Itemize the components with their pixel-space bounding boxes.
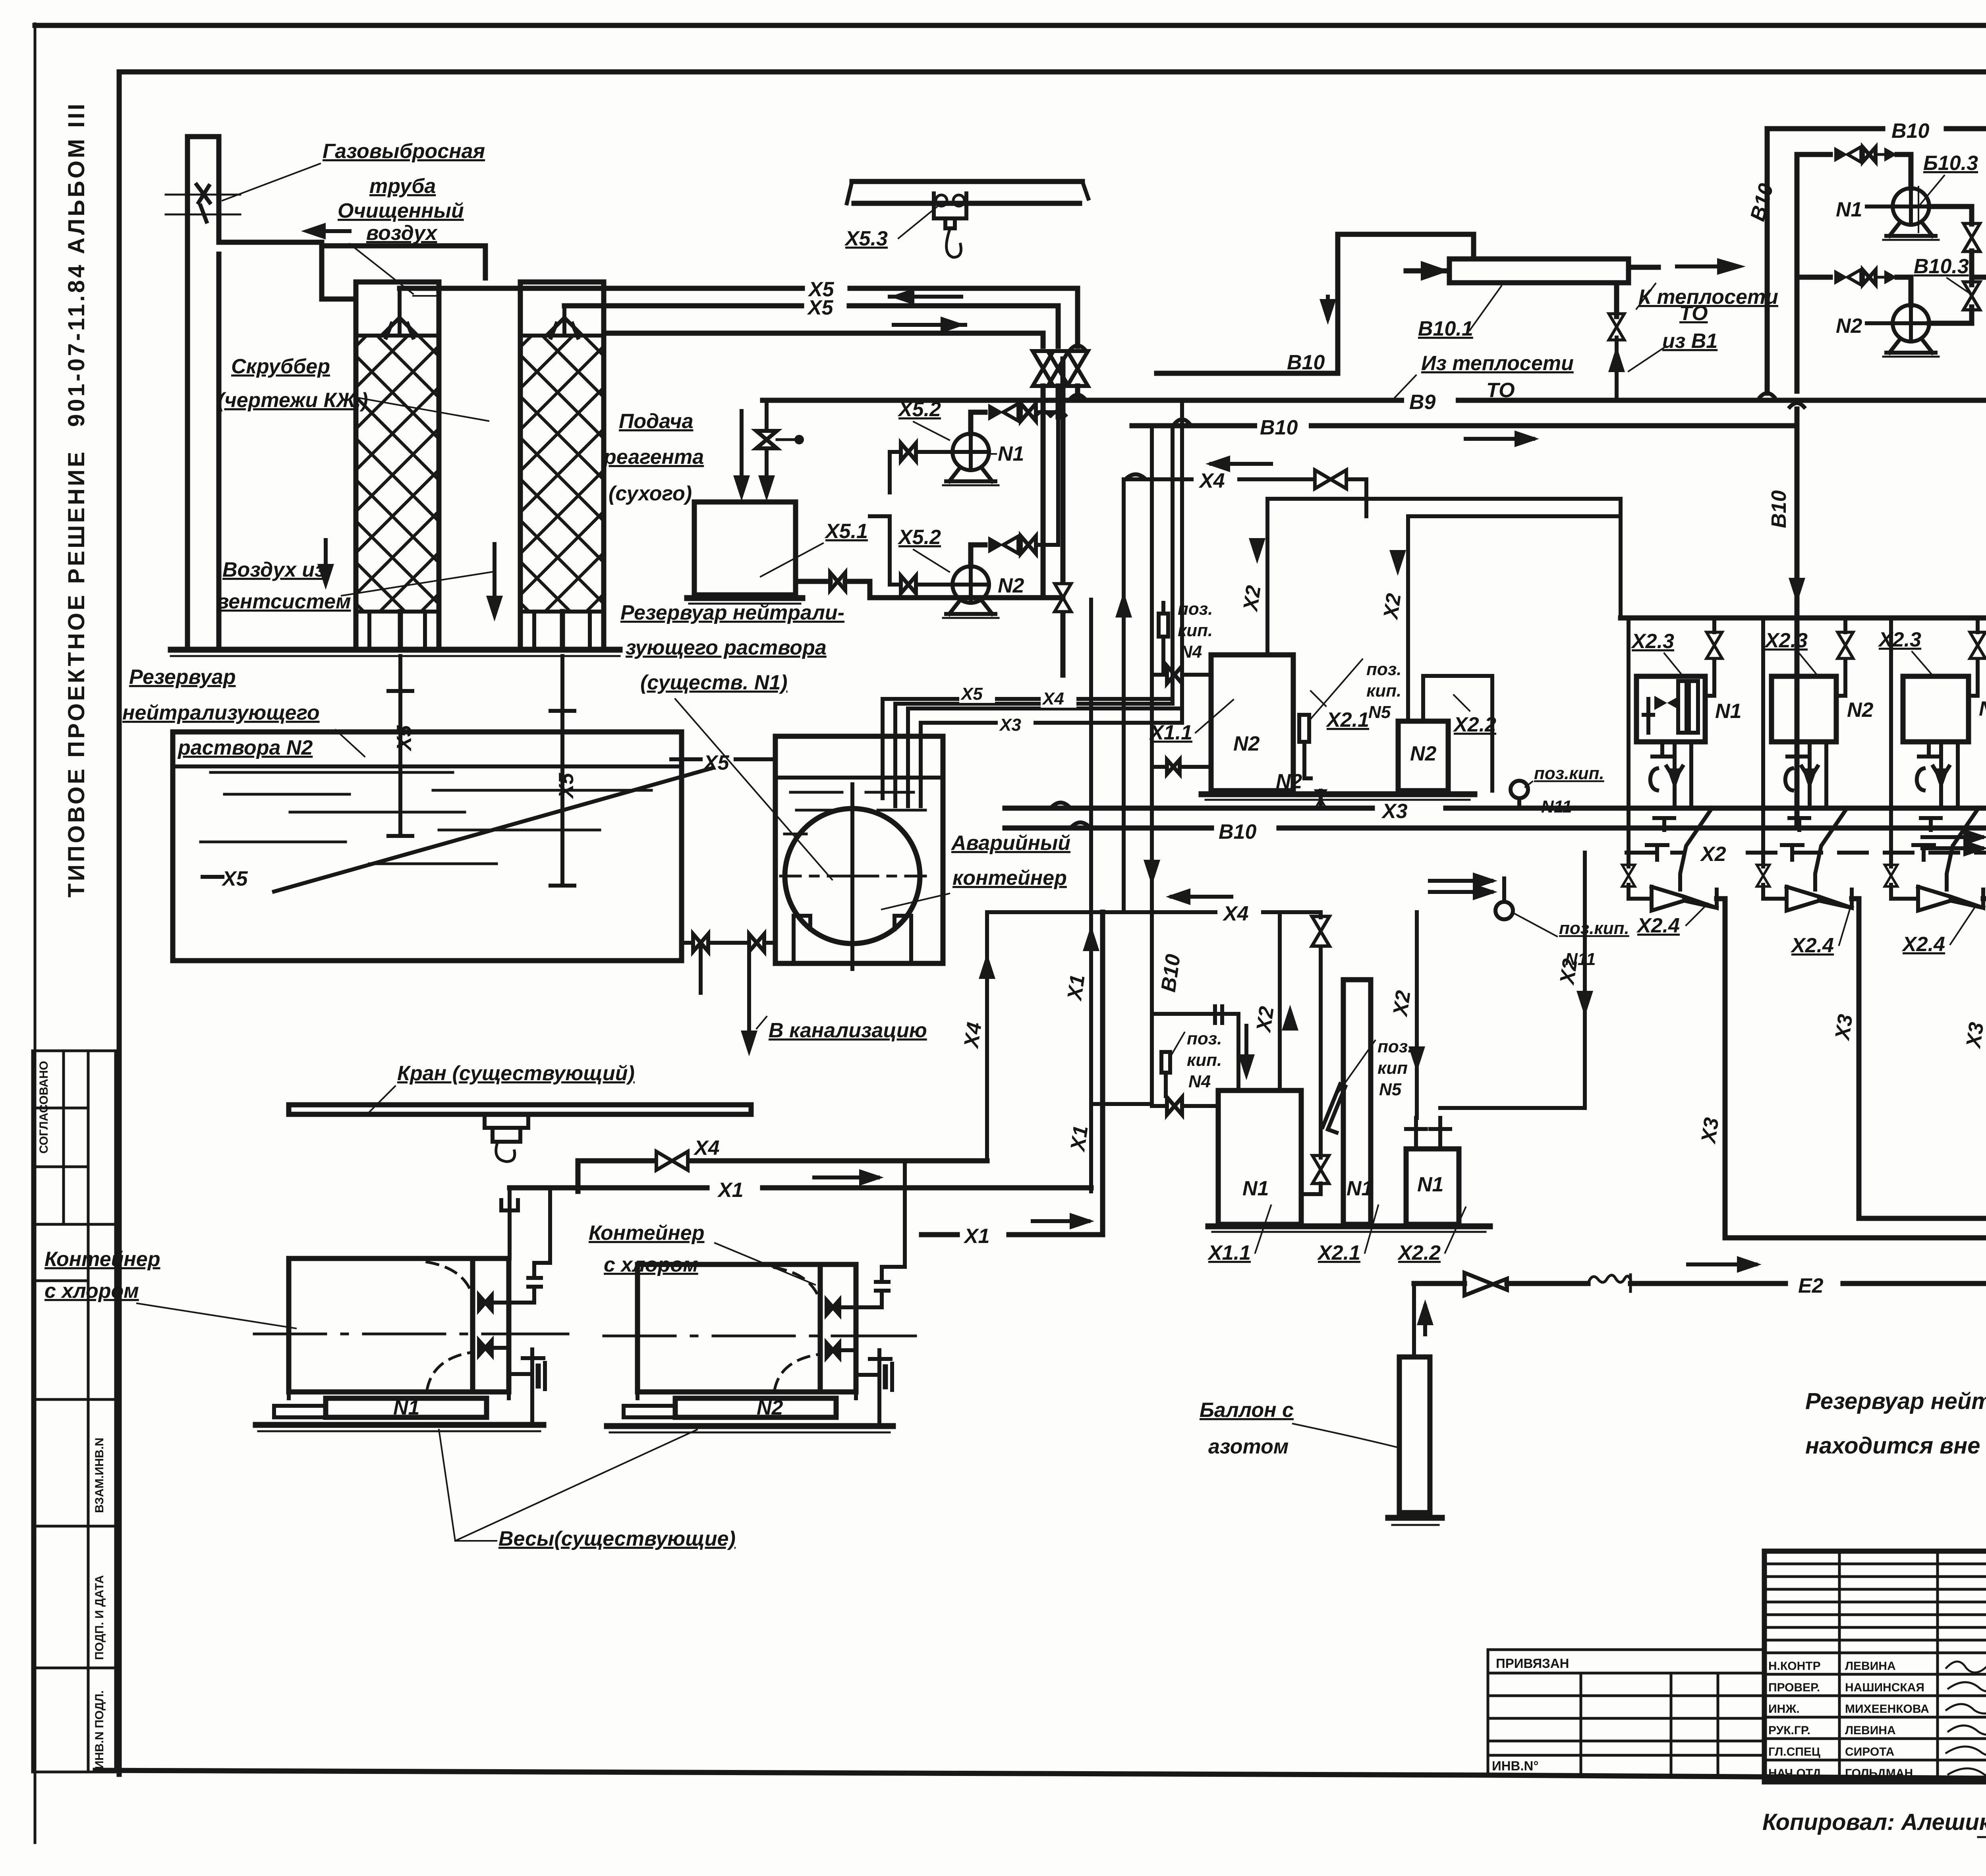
svg-text:Х3: Х3 — [1697, 1116, 1723, 1146]
label N2 in tank — [1233, 732, 1260, 755]
pump N1 discharge with check valve — [971, 403, 1058, 434]
label X2.2 upper — [1453, 695, 1496, 736]
E2 reducer — [1464, 1273, 1507, 1295]
label B10.1 — [1418, 286, 1501, 340]
svg-text:Х5.2: Х5.2 — [897, 526, 941, 549]
svg-text:N1: N1 — [1417, 1173, 1443, 1196]
reservoir drain valve pair — [686, 934, 737, 952]
container N1 discharge riser — [509, 1188, 550, 1303]
pipe X3 main line — [1005, 797, 1986, 819]
label X5 rotated on drain 2 — [555, 772, 578, 799]
container N2 discharge riser — [856, 1161, 905, 1307]
unit supply drops — [1629, 618, 1986, 808]
chlorinator unit 1 box — [1636, 676, 1705, 742]
svg-text:азотом: азотом — [1208, 1435, 1289, 1458]
svg-text:поз.кип.: поз.кип. — [1534, 764, 1604, 783]
label B10 on second line — [1219, 820, 1256, 843]
E2 coil — [1588, 1275, 1631, 1291]
crane X5.3 runway beam upper — [847, 181, 1088, 203]
label N2 container — [757, 1396, 783, 1419]
svg-text:Х2.3: Х2.3 — [1631, 630, 1674, 653]
svg-text:ИНЖ.: ИНЖ. — [1768, 1702, 1800, 1716]
svg-text:нейтрализующего: нейтрализующего — [122, 701, 320, 724]
label X2 rotated far right — [1555, 957, 1582, 987]
svg-text:ИНВ.N°: ИНВ.N° — [1492, 1758, 1539, 1773]
svg-text:воздух: воздух — [366, 222, 438, 245]
container N1 valves — [479, 1295, 509, 1355]
label X1.1 lower — [1207, 1205, 1271, 1264]
label X2.4 unit 3 — [1901, 905, 1976, 956]
svg-text:СИРОТА: СИРОТА — [1845, 1745, 1894, 1758]
svg-text:Х2.3: Х2.3 — [1878, 628, 1921, 651]
svg-text:из В1: из В1 — [1662, 330, 1717, 353]
bath water dashes — [784, 792, 925, 834]
svg-text:Х2: Х2 — [1239, 584, 1265, 614]
svg-text:Весы(существующие): Весы(существующие) — [498, 1527, 736, 1550]
chlorine container N1 — [254, 1258, 568, 1392]
svg-text:с хлором: с хлором — [44, 1280, 139, 1303]
label X3 rotated unit 2 — [1831, 1013, 1857, 1042]
lower loop poz kip N4 — [1152, 1006, 1238, 1101]
label X2.1 lower — [1317, 1205, 1378, 1264]
pipe X5 vertical from scrubber 1 into reservoir — [388, 656, 412, 836]
leader to bath — [675, 699, 832, 880]
label k teploseti TO — [1636, 284, 1778, 325]
signatures — [1946, 1662, 1986, 1778]
flow arrows pair on X3 — [1430, 872, 1497, 900]
purified air upper duct — [324, 246, 485, 278]
label X5 rotated on drain 1 — [393, 725, 416, 752]
label N2 unit — [1847, 699, 1874, 722]
arrow on X1 link — [1033, 1213, 1094, 1229]
unit 2 top valve — [1836, 618, 1853, 696]
svg-text:К теплосети: К теплосети — [1638, 286, 1778, 309]
emergency container drum — [780, 784, 925, 969]
label X5.2 upper — [897, 398, 949, 440]
bath dip pipes from above — [883, 699, 921, 806]
svg-text:Х1: Х1 — [717, 1179, 744, 1202]
label X1.1 — [1149, 700, 1233, 744]
label kontejner s hlorom 2 — [589, 1222, 815, 1285]
valve on X4 lower — [1312, 912, 1329, 1158]
svg-text:ЛЕВИНА: ЛЕВИНА — [1845, 1724, 1896, 1737]
svg-text:Контейнер: Контейнер — [589, 1222, 704, 1245]
svg-text:труба: труба — [369, 175, 436, 198]
svg-text:Контейнер: Контейнер — [44, 1248, 160, 1271]
drain downpipes to sewer — [701, 943, 757, 1056]
svg-text:(чертежи КЖ.): (чертежи КЖ.) — [218, 389, 368, 412]
svg-text:Х1: Х1 — [1066, 1124, 1093, 1154]
B10 elbow riser — [1760, 129, 1774, 397]
collector line 4 — [1859, 1208, 1986, 1229]
label N1 unit — [1715, 700, 1741, 723]
svg-text:поз.: поз. — [1377, 1037, 1412, 1056]
svg-text:N1: N1 — [1715, 700, 1741, 723]
label v kanalizaciyu center — [757, 1017, 927, 1042]
svg-text:ГЛ.СПЕЦ: ГЛ.СПЕЦ — [1768, 1745, 1820, 1758]
tank outlet line to pumps — [1972, 248, 1986, 303]
label B10.3 upper — [1918, 152, 1978, 232]
label X5.3 — [844, 207, 937, 250]
pump N2 suction valve — [870, 516, 952, 593]
label B10.3 lower — [1914, 255, 1969, 293]
svg-text:ПРИВЯЗАН: ПРИВЯЗАН — [1496, 1656, 1569, 1671]
label podacha reagenta suhogo — [603, 410, 704, 505]
label iz teploseti TO — [1392, 352, 1574, 402]
label X1 rotated — [1063, 973, 1090, 1003]
svg-text:В канализацию: В канализацию — [769, 1019, 927, 1042]
manifold drop joints — [1036, 395, 1085, 415]
label X4 rotated — [960, 1021, 986, 1050]
label vozduh iz ventsistem — [216, 558, 503, 621]
label X2.3 unit 1 — [1631, 630, 1682, 675]
svg-text:Х2.4: Х2.4 — [1790, 934, 1834, 957]
svg-text:Х1.1: Х1.1 — [1207, 1241, 1251, 1264]
pump B10 N2 — [1883, 305, 1939, 357]
label kran sushchestvuyushchij — [369, 1062, 635, 1112]
scrubber column 2 legs — [534, 612, 590, 650]
svg-text:поз.: поз. — [1187, 1029, 1222, 1048]
svg-text:ЛЕВИНА: ЛЕВИНА — [1845, 1660, 1896, 1673]
svg-text:Х4: Х4 — [693, 1137, 720, 1160]
lower tanks ground line — [1208, 1226, 1490, 1232]
X5 manifold valve 3 — [1033, 351, 1053, 598]
label B10 rotated on riser — [1746, 181, 1778, 224]
svg-text:Х5: Х5 — [555, 772, 578, 799]
svg-text:НАЧ.ОТД: НАЧ.ОТД — [1768, 1767, 1821, 1780]
label N2 at platform — [1276, 770, 1302, 793]
pipe E2 — [1414, 1281, 1986, 1286]
label X3 rotated unit 3 — [1962, 1021, 1986, 1050]
svg-text:кип.: кип. — [1366, 681, 1401, 701]
X2 down pipe from dashed line — [1440, 853, 1593, 1108]
pump N1 suction valve — [890, 443, 952, 492]
bath drain valve pair — [737, 934, 775, 952]
svg-text:ИНВ.N ПОДЛ.: ИНВ.N ПОДЛ. — [93, 1691, 106, 1770]
lower tank feed valve — [1152, 1097, 1218, 1115]
svg-text:Х2.1: Х2.1 — [1317, 1241, 1360, 1264]
container N1 ground — [256, 1425, 543, 1431]
svg-text:Подача: Подача — [619, 410, 693, 433]
label kontejner s hlorom 1 — [44, 1248, 296, 1328]
label X5.2 lower — [897, 526, 949, 572]
unit 1 fittings at lines — [1647, 818, 1674, 860]
label ochishchennyj vozduh — [301, 199, 464, 296]
label X2.1 upper — [1311, 691, 1369, 731]
svg-text:ГОЛЬДМАН: ГОЛЬДМАН — [1845, 1767, 1913, 1780]
svg-text:Х5: Х5 — [393, 725, 416, 752]
svg-text:Х2: Х2 — [1252, 1005, 1279, 1035]
svg-text:Х5: Х5 — [960, 684, 983, 704]
pipe B10 second line — [1005, 818, 1986, 839]
svg-text:вентсистем: вентсистем — [216, 590, 351, 613]
svg-text:N2: N2 — [998, 574, 1024, 597]
pipe X4 upper horizontal — [1124, 475, 1313, 480]
svg-text:Воздух из: Воздух из — [222, 558, 325, 581]
container N1 weight lever — [509, 1349, 545, 1425]
valve under ground to X3 — [1316, 790, 1326, 808]
HX inlet arrow — [1406, 261, 1449, 281]
svg-text:N2: N2 — [1410, 742, 1437, 765]
small tank X2.2 lower — [1406, 1149, 1459, 1224]
unit 3 lower piping — [1917, 742, 1958, 808]
svg-text:Х5: Х5 — [807, 296, 834, 319]
chlorinator unit 2 box — [1772, 676, 1836, 742]
svg-text:Кран (существующий): Кран (существующий) — [397, 1062, 635, 1085]
svg-text:N4: N4 — [1188, 1072, 1211, 1091]
unit 2 inlet valve — [1757, 808, 1787, 899]
labels E2 — [1798, 1274, 1986, 1297]
sheet outer border left — [34, 24, 37, 1843]
svg-text:Х2.4: Х2.4 — [1636, 914, 1680, 937]
pipe X1 bottom line — [501, 1179, 1091, 1258]
vertical X4 link pipe — [979, 912, 995, 1156]
stamp column rotated captions — [37, 1061, 106, 1769]
tank N2 drain valve — [1152, 760, 1211, 774]
label avarijnyj kontejner — [882, 832, 1070, 909]
label N3 unit — [1979, 697, 1986, 720]
svg-text:В10: В10 — [1287, 351, 1325, 374]
svg-text:Х4: Х4 — [1198, 469, 1225, 492]
chlorinator supply header — [1621, 618, 1986, 808]
svg-text:(сухого): (сухого) — [609, 482, 692, 505]
label X2.4 unit 2 — [1790, 905, 1851, 957]
pipe B9 main line — [763, 398, 1986, 403]
svg-text:раствора N2: раствора N2 — [177, 736, 313, 759]
scrubber column 2 packing — [520, 336, 604, 612]
lower big tank N1 — [1218, 1090, 1301, 1224]
ejector X2.4 unit 1 — [1652, 887, 1725, 1238]
X2 riser from tank X2.2 — [1389, 499, 1621, 721]
svg-text:N11: N11 — [1541, 797, 1572, 816]
riser to emergency bath — [1055, 359, 1071, 675]
main vertical B10 drop to chlorinators — [1789, 154, 1805, 828]
svg-text:Резервуар: Резервуар — [129, 666, 236, 689]
left jog of X3 line — [1053, 803, 1088, 826]
unit 2 fittings — [1782, 818, 1809, 860]
label N1 right pump — [1836, 198, 1893, 221]
svg-text:Х5.3: Х5.3 — [844, 227, 888, 250]
svg-text:Х4: Х4 — [1041, 689, 1064, 708]
label N1 pump — [990, 442, 1024, 465]
svg-text:СОГЛАСОВАНО: СОГЛАСОВАНО — [37, 1061, 50, 1154]
unit 3 fittings — [1913, 818, 1941, 860]
X2 feed pipe with valve lower — [1301, 1155, 1329, 1194]
pipe B10 upper branch to HX — [1157, 351, 1338, 374]
label iz B1 — [1629, 330, 1717, 371]
pump N1 discharge branch — [1797, 147, 1911, 188]
title block outer — [1764, 1551, 1986, 1782]
label ballon s azotom — [1200, 1399, 1398, 1458]
svg-text:Х3: Х3 — [1962, 1021, 1986, 1050]
pump B10 N1 — [1883, 188, 1939, 240]
drum cradle — [794, 916, 911, 963]
unit 3 inlet valve — [1885, 808, 1918, 899]
label X4 upper — [1198, 469, 1225, 492]
valve on X4 upper — [1315, 470, 1366, 516]
ejector X2.4 unit 3 — [1918, 887, 1986, 1199]
svg-text:N5: N5 — [1379, 1080, 1402, 1099]
crane runway beam lower — [289, 1105, 751, 1162]
label X3 on line — [1376, 793, 1440, 823]
label gazovybrosnaya truba — [222, 140, 485, 201]
pipe X1 link line lower — [922, 912, 1103, 1248]
svg-text:НАШИНСКАЯ: НАШИНСКАЯ — [1845, 1681, 1924, 1694]
svg-text:контейнер: контейнер — [952, 867, 1067, 890]
tank N2 feed valve upper — [1152, 666, 1211, 683]
svg-text:Х1.1: Х1.1 — [1149, 721, 1192, 744]
scrubber column 2 shell — [520, 282, 604, 650]
svg-text:Баллон с: Баллон с — [1200, 1399, 1294, 1422]
svg-text:Х3: Х3 — [1381, 800, 1408, 823]
pipe X5 line 1 — [400, 288, 1085, 349]
note text — [1805, 1388, 1986, 1459]
pump X5.2 N1 — [943, 434, 999, 485]
svg-text:N2: N2 — [1847, 699, 1874, 722]
crane X5.3 trolley and hook — [934, 193, 966, 257]
svg-text:Х1: Х1 — [963, 1225, 990, 1248]
label X5.1 — [761, 520, 868, 577]
svg-text:В10: В10 — [1768, 490, 1791, 528]
dashed line X2 — [1627, 843, 1986, 866]
nitrogen bottle — [1388, 1283, 1442, 1525]
svg-text:кип: кип — [1377, 1058, 1408, 1078]
svg-text:кип.: кип. — [1187, 1050, 1222, 1070]
svg-text:В10.1: В10.1 — [1418, 317, 1473, 340]
scrubber column 2 sprayer — [549, 306, 580, 338]
svg-text:N1: N1 — [998, 442, 1024, 465]
svg-text:Резервуар нейтрализующего ра: Резервуар нейтрализующего раствора N2 — [1805, 1388, 1986, 1414]
svg-text:Из теплосети: Из теплосети — [1421, 352, 1574, 375]
svg-text:N1: N1 — [1242, 1177, 1269, 1200]
svg-text:N1: N1 — [393, 1396, 419, 1419]
svg-text:МИХЕЕНКОВА: МИХЕЕНКОВА — [1845, 1702, 1929, 1716]
heat exchanger B10.1 — [1449, 259, 1629, 283]
flanged stubs on small tank — [1406, 1118, 1450, 1149]
svg-text:В9: В9 — [1409, 391, 1436, 414]
svg-text:ПРОВЕР.: ПРОВЕР. — [1768, 1681, 1820, 1694]
svg-text:В10: В10 — [1219, 820, 1256, 843]
svg-text:Х4: Х4 — [960, 1021, 986, 1050]
feed valve with handwheel — [756, 400, 804, 448]
svg-text:поз.: поз. — [1178, 599, 1213, 619]
vertical X1 pipe — [1083, 600, 1099, 1191]
label X2.2 lower — [1397, 1207, 1466, 1264]
emergency bath tank — [775, 736, 943, 963]
pump N1 outlet to valve column — [1929, 207, 1980, 285]
svg-text:Х2: Х2 — [1555, 957, 1582, 987]
air inlet arrows between columns — [317, 540, 495, 596]
svg-text:N3: N3 — [1979, 697, 1986, 720]
pipe B10 top right header — [1767, 129, 1986, 178]
svg-text:Х2.2: Х2.2 — [1397, 1241, 1441, 1264]
tank X5.1 outlet valve — [796, 573, 1063, 598]
pump N2 to valve column — [1929, 282, 1980, 323]
svg-text:кип.: кип. — [1178, 621, 1213, 640]
svg-text:Х4: Х4 — [1222, 902, 1249, 925]
small tank N2 X2.2 — [1398, 676, 1492, 791]
X2 riser to lower tanks — [1280, 912, 1298, 1090]
labels X5 X4 X3 on bath feed lines — [959, 682, 1076, 735]
svg-text:N2: N2 — [757, 1396, 783, 1419]
label X2.3 unit 2 — [1764, 629, 1817, 675]
pipe X4 lower horizontal — [987, 888, 1321, 925]
purified air line from scrubber 1 to stack — [219, 242, 356, 299]
unit 1 slant pipe — [1680, 808, 1712, 890]
label rezervuar neutralizing (sushchestv N1) — [620, 601, 844, 694]
label X3 rotated unit 1 — [1697, 1116, 1723, 1146]
pipe X5 line 3 from scrubber 2 — [604, 333, 1043, 346]
return riser iz B1 with valve — [1608, 283, 1625, 400]
label N2 right pump — [1836, 315, 1893, 338]
svg-text:Х5: Х5 — [221, 867, 248, 890]
svg-text:Х2.3: Х2.3 — [1764, 629, 1808, 652]
pipe X5 line 2 — [564, 306, 1058, 346]
svg-text:ТО: ТО — [1679, 302, 1708, 325]
svg-text:N4: N4 — [1180, 642, 1202, 662]
container N2 valves — [827, 1300, 856, 1357]
flow arrows pair mid — [1922, 829, 1986, 857]
title block grid — [1764, 1551, 1986, 1782]
E2 flow arrow — [1688, 1256, 1762, 1273]
X2 riser from tank N2 — [1249, 499, 1621, 655]
svg-text:АЛЬБОМ III: АЛЬБОМ III — [64, 101, 89, 254]
X5 manifold valve 2 — [1048, 351, 1068, 417]
flow arrow on B10 — [1466, 430, 1539, 447]
label N2 small tank — [1410, 742, 1437, 765]
label vesy sushchestvuyushchie — [439, 1430, 736, 1550]
label X2 rotated lower left — [1252, 1005, 1279, 1035]
label X2.4 unit 1 — [1636, 903, 1708, 937]
unit 1 inlet valve — [1622, 808, 1652, 899]
container N2 ground — [607, 1426, 893, 1432]
svg-text:(существ. N1): (существ. N1) — [640, 671, 788, 694]
X2 riser right down — [1408, 912, 1425, 1118]
pipe B10 long line — [1132, 423, 1797, 428]
arrow on X4 upper — [1206, 455, 1271, 472]
label B10 on long line — [1257, 412, 1309, 439]
scrubber column 1 sprayer — [384, 288, 415, 338]
pump X5.2 N2 — [943, 566, 999, 618]
svg-text:Х1: Х1 — [1063, 973, 1090, 1003]
instrument poz kip N4 upper — [1159, 599, 1213, 671]
tank X5.1 — [687, 502, 802, 604]
svg-text:Х3: Х3 — [1831, 1013, 1857, 1042]
instrument poz kip N11 first — [1511, 764, 1604, 816]
svg-text:В10: В10 — [1891, 120, 1929, 143]
chlorine container N2 — [604, 1264, 916, 1392]
svg-text:Н.КОНТР: Н.КОНТР — [1768, 1660, 1821, 1673]
svg-text:Резервуар нейтрали-: Резервуар нейтрали- — [620, 601, 844, 624]
svg-text:В10: В10 — [1260, 416, 1298, 439]
tall column X2.1 — [1343, 980, 1373, 1224]
pipe X5 vertical from scrubber 2 into reservoir — [551, 656, 574, 886]
arrow into lower tank — [1238, 1026, 1255, 1080]
svg-text:Х2: Х2 — [1389, 989, 1415, 1019]
unit 3 top valve — [1969, 618, 1986, 696]
svg-text:РУК.ГР.: РУК.ГР. — [1768, 1724, 1810, 1737]
svg-text:реагента: реагента — [603, 446, 704, 469]
HX inlet riser — [1319, 234, 1474, 373]
unit 1 top valve — [1705, 618, 1722, 696]
svg-text:N1: N1 — [1347, 1177, 1373, 1200]
label N2 pump — [998, 574, 1024, 597]
upper tank N2 X1.1 — [1211, 655, 1293, 791]
vertical pipe to X4 upper — [1115, 479, 1132, 912]
upper tanks ground line — [1202, 794, 1474, 800]
reagent feed lines with arrows — [733, 411, 775, 501]
label X2 rotated right riser — [1379, 592, 1406, 621]
